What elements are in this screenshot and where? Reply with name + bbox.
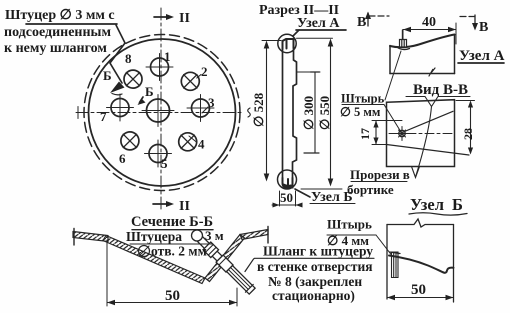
balloon circle Б — [278, 170, 297, 189]
balloon Б leader — [295, 189, 310, 197]
dim Ø300 ext line — [297, 71, 320, 73]
svg-text:В: В — [357, 15, 366, 30]
leader fitting to Штырь label — [385, 51, 401, 100]
svg-text:Б: Б — [145, 84, 154, 99]
view B-B slot upper edge — [405, 111, 454, 131]
section profile right line with jogs — [293, 48, 297, 178]
dim Ø300 line — [314, 72, 316, 153]
svg-text:7: 7 — [100, 109, 107, 124]
leader for 2 — [197, 75, 201, 79]
node A bottom break mark — [429, 68, 435, 76]
hole 2 — [181, 72, 199, 90]
svg-text:II: II — [179, 11, 190, 26]
dim 50 (node Б) — [387, 297, 454, 299]
svg-text:Штуцер ∅ 3 мм с: Штуцер ∅ 3 мм с — [5, 8, 115, 23]
svg-text:Сечение Б-Б: Сечение Б-Б — [131, 214, 213, 230]
svg-text:Штырь: Штырь — [341, 92, 385, 106]
svg-text:Б: Б — [103, 68, 112, 83]
svg-text:∅ 5 мм: ∅ 5 мм — [340, 105, 381, 119]
svg-text:Узел А: Узел А — [459, 48, 505, 64]
svg-text:3 м: 3 м — [205, 228, 224, 243]
view B-B bottom V mark — [412, 167, 420, 178]
underline Штырь Ø4 — [327, 234, 376, 236]
section profile top hook — [283, 39, 294, 49]
dim 28 — [470, 102, 472, 153]
centerline break squiggle — [248, 108, 251, 117]
svg-text:3: 3 — [208, 95, 215, 110]
horizontal centerline — [76, 112, 244, 114]
hole 8 — [124, 70, 142, 88]
center hole Б — [147, 99, 170, 122]
node A detail bottom edge — [390, 73, 455, 75]
svg-text:стационарно): стационарно) — [272, 288, 355, 303]
section Б-Б descending wall — [103, 236, 205, 284]
view B-B break line — [416, 107, 432, 178]
node A top curve — [390, 35, 455, 48]
hole 7 — [111, 99, 129, 117]
balloon circle A — [278, 34, 296, 52]
svg-text:II: II — [179, 199, 190, 214]
leader to pin — [384, 105, 401, 133]
disc solid circle — [89, 39, 236, 186]
svg-text:Вид В-В: Вид В-В — [413, 82, 468, 98]
svg-text:Узел А: Узел А — [297, 16, 340, 31]
balloon A leader — [293, 30, 299, 36]
svg-text:28: 28 — [461, 128, 475, 140]
hole 4 — [179, 133, 197, 151]
label 8 отв 2 мм — [139, 246, 150, 257]
svg-text:∅ 550: ∅ 550 — [317, 96, 332, 130]
hole numbers — [100, 49, 215, 171]
svg-text:50: 50 — [280, 190, 293, 205]
view B-B pin — [399, 130, 405, 136]
dim Ø528 ext lines — [262, 40, 281, 42]
section Б-Б ascending wall — [205, 235, 245, 282]
node A fitting — [400, 40, 407, 48]
svg-text:В: В — [479, 20, 488, 35]
center Б arrow — [140, 97, 144, 103]
node Б detail left edge — [386, 225, 388, 300]
node A detail right edge — [454, 35, 456, 74]
leader from label to hole Б — [110, 25, 125, 83]
svg-text:8: 8 — [125, 51, 132, 66]
left centerline tick — [77, 107, 79, 119]
section profile bottom hook — [283, 178, 293, 188]
dim 50 (section Б-Б) — [106, 240, 108, 306]
svg-text:отв. 2 мм: отв. 2 мм — [151, 244, 207, 259]
dim Ø550 line — [330, 41, 332, 184]
section Б-Б left bar — [73, 232, 108, 242]
svg-text:Узел: Узел — [410, 195, 444, 214]
leader Ø4 to pin — [376, 235, 392, 255]
vertical centerline — [160, 8, 162, 210]
svg-text:Штуцера: Штуцера — [126, 229, 182, 244]
label Шланг к штуцеру block — [257, 244, 373, 304]
svg-text:бортике: бортике — [347, 182, 394, 197]
svg-text:в стенке отверстия: в стенке отверстия — [257, 259, 373, 274]
node Б profile curve — [389, 256, 454, 273]
svg-text:Штырь: Штырь — [327, 217, 372, 232]
dim 17 — [375, 121, 377, 145]
leader bracket for Шланг label — [245, 258, 374, 271]
label: Штуцер Ø 3 мм text block — [4, 8, 115, 56]
svg-text:17: 17 — [358, 128, 372, 140]
svg-text:Б: Б — [452, 195, 463, 214]
node Б detail top line with break — [387, 219, 454, 227]
underline of label line1 — [26, 23, 117, 25]
svg-text:6: 6 — [119, 151, 126, 166]
svg-text:∅ 300: ∅ 300 — [301, 96, 316, 130]
svg-text:4: 4 — [198, 137, 205, 152]
svg-text:∅ 528: ∅ 528 — [251, 92, 266, 127]
node Б pin — [392, 252, 399, 278]
view B-B centerline — [389, 133, 452, 135]
underline Узел А — [296, 29, 346, 31]
svg-text:№ 8 (закреплен: № 8 (закреплен — [268, 274, 362, 289]
svg-text:Прорези в: Прорези в — [350, 167, 410, 182]
fitting tube assembly — [195, 234, 256, 295]
hole 5 — [149, 145, 167, 163]
svg-text:1: 1 — [164, 49, 171, 64]
svg-text:5: 5 — [161, 156, 168, 171]
node Б detail right edge — [453, 225, 455, 303]
svg-text:40: 40 — [422, 15, 436, 30]
svg-text:к нему шлангом: к нему шлангом — [4, 41, 107, 56]
section Б-Б right bar — [240, 230, 268, 240]
dim Ø528 line — [266, 43, 268, 179]
view B-B slot lower edge — [387, 145, 470, 156]
leader for 4 — [189, 136, 197, 143]
dim Ø550 ext lines — [297, 38, 343, 189]
underline Узел Б (middle) — [310, 203, 355, 205]
leader for 3 — [202, 107, 208, 113]
section mark В right — [460, 16, 476, 18]
view B-B outline — [387, 100, 455, 167]
underline Штырь — [342, 104, 384, 106]
svg-text:подсоединенным: подсоединенным — [4, 25, 111, 40]
svg-text:50: 50 — [165, 288, 180, 304]
svg-text:50: 50 — [411, 282, 426, 298]
node A detail left edge — [389, 46, 391, 74]
hole 3 — [192, 99, 210, 117]
disc dashed outer circle — [84, 35, 240, 191]
section profile left line — [282, 48, 284, 178]
hole 6 — [121, 132, 139, 150]
section mark II bottom — [153, 203, 168, 205]
svg-text:2: 2 — [201, 64, 208, 79]
section mark II top — [154, 16, 168, 18]
hole 1 — [151, 58, 169, 76]
